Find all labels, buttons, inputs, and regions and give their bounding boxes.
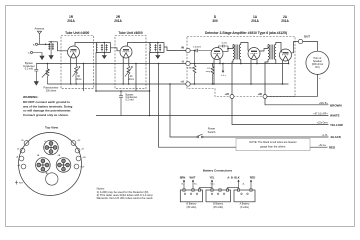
terminal +B det <box>230 95 234 99</box>
tube D <box>211 45 233 85</box>
grid condenser 0.00025 <box>190 49 211 53</box>
rheostat unit2 <box>125 66 133 84</box>
tube label 2A <box>281 15 289 23</box>
wire B+ RF link (y=91) <box>96 90 150 92</box>
svg-text:2 Meg: 2 Meg <box>187 68 194 70</box>
svg-text:(45 volts): (45 volts) <box>186 206 196 209</box>
key circle <box>46 173 58 185</box>
AF transformer T3 <box>232 43 248 97</box>
terminal -A <box>186 61 190 65</box>
bypass condenser 2 <box>119 91 123 116</box>
svg-text:ohms: ohms <box>76 78 83 81</box>
terminal OUT <box>298 39 302 43</box>
svg-text:filaments. Non-UX 201 tubes c: filaments. Non-UX 201 tubes cannot be us… <box>97 196 154 200</box>
wire unit1 internal riser <box>83 64 85 92</box>
wire condenser to grid 1R <box>58 42 68 51</box>
svg-text:Tube Unit #4600: Tube Unit #4600 <box>65 31 89 35</box>
battery series link 1-2 <box>200 188 213 190</box>
wire unit2 internal riser <box>135 64 137 92</box>
binding post G <box>30 51 32 53</box>
tube 1A <box>248 45 268 85</box>
svg-text:YELLOW: YELLOW <box>330 123 343 127</box>
A battery 3 <box>234 189 255 202</box>
plate condenser 0.001 <box>219 45 229 49</box>
wire L1 to B+ <box>96 53 98 92</box>
tube unit #4600 box 2 (dashed) <box>115 36 146 89</box>
svg-text:BROWN: BROWN <box>330 104 342 108</box>
variable condenser C1 <box>101 43 108 59</box>
svg-text:BRN: BRN <box>180 175 186 179</box>
B battery 2 <box>206 189 231 202</box>
svg-text:+90: +90 <box>258 92 263 96</box>
battery series link 2-3 <box>228 188 239 190</box>
tube 2A <box>280 42 299 85</box>
svg-text:+22v Det+: +22v Det+ <box>317 122 329 125</box>
antenna <box>37 31 41 44</box>
svg-text:OUT: OUT <box>304 34 310 38</box>
wire L2 to B+ <box>150 53 152 116</box>
socket 1A <box>36 158 51 173</box>
svg-text:A Battery: A Battery <box>240 203 251 206</box>
terminal +A <box>186 82 190 86</box>
wire L2 to IN terminal <box>164 47 186 51</box>
antenna variable condenser <box>48 42 57 59</box>
terminal rings left <box>19 141 29 169</box>
svg-text:201A: 201A <box>281 19 289 23</box>
svg-text:0.2 mfd: 0.2 mfd <box>126 99 135 102</box>
RF tuning coil L2 <box>150 43 164 53</box>
svg-text:Antenna: Antenna <box>34 27 44 31</box>
svg-text:Detector 2-Stage Amplifier #49: Detector 2-Stage Amplifier #4910 Type 6 … <box>205 31 287 35</box>
wire BLACK A- B- <box>170 84 329 137</box>
svg-text:NOTE: The black & red wires a: NOTE: The black & red wires are heavier <box>249 140 296 144</box>
socket D <box>44 140 59 155</box>
svg-text:B-: B- <box>182 184 184 186</box>
svg-text:(45 volts): (45 volts) <box>213 206 223 209</box>
svg-text:(6 volts): (6 volts) <box>240 206 249 209</box>
junction dots left <box>47 63 151 92</box>
socket 2A <box>56 158 71 173</box>
svg-text:YEL: YEL <box>209 175 214 179</box>
svg-text:0.2 mfd: 0.2 mfd <box>25 67 34 70</box>
svg-text:A- B-: A- B- <box>227 175 233 179</box>
wire +A bus inside box <box>190 83 288 85</box>
svg-text:Top View: Top View <box>45 126 59 130</box>
wire RED +6 A+ <box>159 64 328 148</box>
resistor .5 meg <box>211 64 214 85</box>
svg-text:Connect ground only as shown.: Connect ground only as shown. <box>23 113 69 117</box>
svg-text:0.001: 0.001 <box>222 43 228 45</box>
tube 2R <box>120 43 151 85</box>
bus wire -A (y=63.5) <box>36 63 186 65</box>
potentiometer <box>42 64 50 85</box>
bus wire +A (y=84) <box>47 83 185 85</box>
bypass condenser 1 <box>34 64 38 86</box>
variable condenser C2 <box>154 43 161 59</box>
notes text <box>97 187 154 200</box>
power switch <box>197 134 203 138</box>
key arrow <box>44 170 47 173</box>
svg-text:WHITE: WHITE <box>330 114 340 118</box>
svg-text:B Battery: B Battery <box>213 203 224 206</box>
detector amplifier box (dashed) <box>187 37 295 97</box>
tube label 1A <box>251 15 259 23</box>
svg-text:RED: RED <box>329 145 336 149</box>
svg-text:Tube Unit #4600: Tube Unit #4600 <box>118 31 142 35</box>
binding post A <box>35 43 37 45</box>
svg-text:300: 300 <box>212 19 218 23</box>
svg-text:200 ohms: 200 ohms <box>46 90 57 93</box>
terminal IN <box>186 48 190 52</box>
svg-text:KEY: KEY <box>19 183 24 185</box>
svg-text:DC): DC) <box>315 66 319 69</box>
svg-text:Switch: Switch <box>208 130 216 134</box>
ground arrow <box>33 53 45 60</box>
svg-text:RED: RED <box>250 175 256 179</box>
svg-text:OUT: OUT <box>80 167 85 169</box>
svg-text:BLK: BLK <box>234 175 239 179</box>
warning text <box>23 95 73 117</box>
AF transformer T4 <box>265 43 281 97</box>
svg-text:IN: IN <box>181 46 184 50</box>
wire L1 to grid of 2R <box>111 48 121 51</box>
battery wire labels <box>180 175 256 179</box>
svg-text:+22: +22 <box>225 92 230 96</box>
svg-text:A- B-: A- B- <box>322 134 328 137</box>
B battery 1 <box>180 189 202 202</box>
svg-text:+67 1/2v RF+: +67 1/2v RF+ <box>313 113 328 116</box>
svg-text:-A: -A <box>181 60 184 64</box>
note box <box>236 139 310 151</box>
RF tuning coil L1 <box>96 43 110 53</box>
svg-text:ohms: ohms <box>128 78 135 81</box>
speaker wire <box>303 42 318 52</box>
svg-text:WHT: WHT <box>190 175 196 179</box>
svg-text:WARNING:: WARNING: <box>23 95 39 99</box>
terminal +B amp <box>263 95 267 99</box>
svg-text:gauge than the others.: gauge than the others. <box>260 144 286 148</box>
battery lead arrows <box>183 180 252 189</box>
tube label 2R <box>114 15 122 23</box>
top view circle <box>19 133 82 196</box>
terminal rings right <box>71 141 81 169</box>
svg-text:+A: +A <box>180 80 184 84</box>
tube 1R <box>68 43 98 85</box>
C battery tap 4.5v <box>222 64 224 73</box>
svg-text:+90v B+: +90v B+ <box>319 102 329 105</box>
svg-text:G: G <box>28 53 30 55</box>
key marker <box>15 181 18 185</box>
wire BROWN +90 <box>265 99 329 105</box>
svg-text:201A: 201A <box>67 19 75 23</box>
wire YELLOW +22 <box>232 99 329 125</box>
svg-text:BLACK: BLACK <box>331 135 342 139</box>
rheostat unit1 <box>73 66 81 84</box>
wire antenna to condenser <box>38 43 49 45</box>
svg-text:B Battery: B Battery <box>186 203 197 206</box>
speaker lower wire <box>267 74 318 96</box>
svg-text:201A: 201A <box>251 19 259 23</box>
junction dots in box <box>194 48 290 85</box>
wire WHITE +67.5 <box>96 115 329 117</box>
svg-text:0.00025: 0.00025 <box>193 46 202 48</box>
svg-text:A-: A- <box>243 183 245 186</box>
svg-text:+6v A+: +6v A+ <box>319 144 327 147</box>
tube unit #4600 box 1 (dashed) <box>61 36 94 89</box>
svg-text:201A: 201A <box>114 19 122 23</box>
tube label 1R <box>67 15 75 23</box>
horn speaker <box>306 51 329 74</box>
junction dots power <box>149 63 171 117</box>
tube label D <box>212 15 218 23</box>
svg-text:Battery Connections: Battery Connections <box>203 169 233 173</box>
wire -A bus inside box <box>190 63 288 65</box>
grid leak 2 Meg <box>193 51 196 85</box>
